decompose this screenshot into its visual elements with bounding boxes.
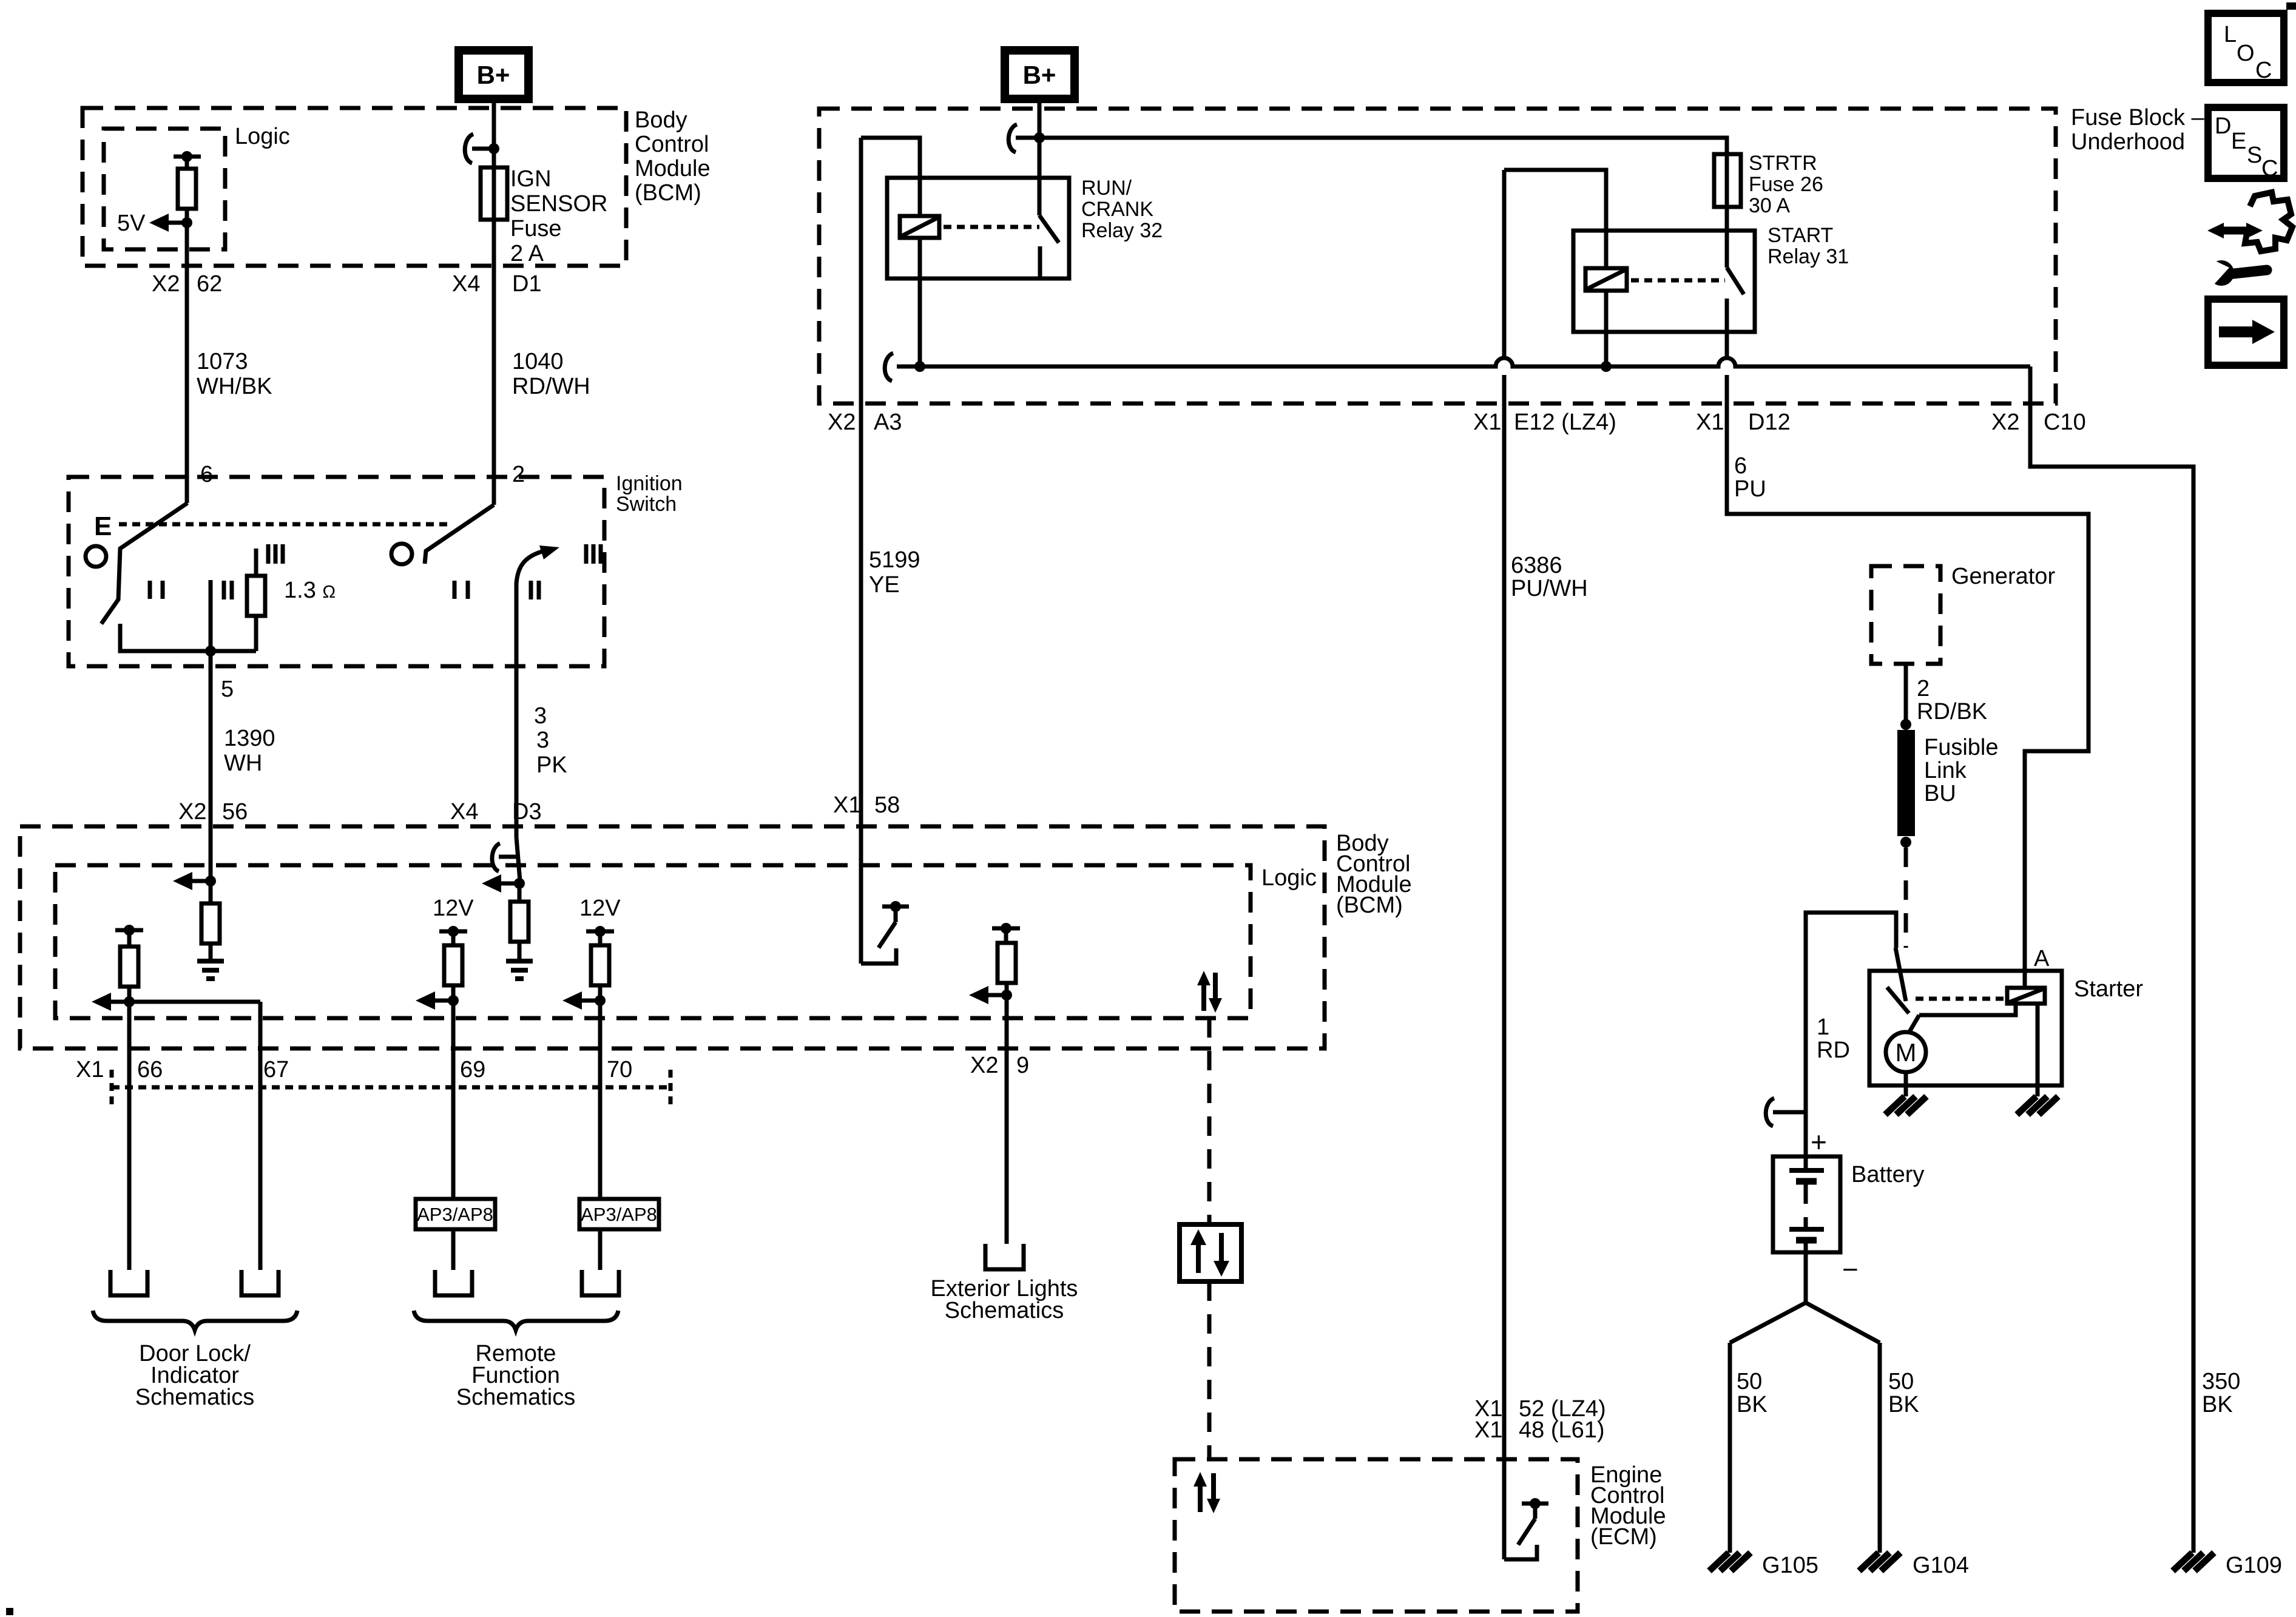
svg-text:X2: X2	[1991, 410, 2019, 435]
svg-text:BK: BK	[1888, 1392, 1919, 1417]
svg-text:PK: PK	[536, 752, 567, 778]
svg-text:E: E	[2231, 129, 2246, 154]
svg-text:Fuse: Fuse	[510, 216, 561, 241]
svg-text:Fusible: Fusible	[1924, 735, 1999, 760]
svg-text:56: 56	[222, 799, 248, 825]
svg-text:D12: D12	[1748, 410, 1791, 435]
svg-text:3: 3	[536, 727, 549, 753]
svg-text:5199: 5199	[869, 547, 920, 573]
svg-text:Body: Body	[635, 107, 687, 133]
svg-text:D3: D3	[512, 799, 542, 825]
svg-text:X2: X2	[152, 271, 180, 297]
svg-text:48 (L61): 48 (L61)	[1519, 1417, 1605, 1443]
svg-text:6: 6	[1734, 453, 1747, 479]
svg-text:BK: BK	[1737, 1392, 1768, 1417]
svg-text:Fuse 26: Fuse 26	[1749, 173, 1823, 196]
svg-text:BK: BK	[2202, 1392, 2233, 1417]
svg-text:X2: X2	[178, 799, 206, 825]
svg-text:RD: RD	[1817, 1038, 1850, 1063]
svg-text:L: L	[2224, 22, 2237, 47]
svg-text:66: 66	[137, 1057, 163, 1082]
svg-text:D: D	[2215, 113, 2231, 139]
svg-text:1073: 1073	[197, 349, 248, 374]
svg-text:AP3/AP8: AP3/AP8	[581, 1204, 657, 1225]
svg-text:(BCM): (BCM)	[635, 180, 701, 206]
svg-text:A: A	[2034, 946, 2050, 971]
svg-text:B+: B+	[1023, 61, 1056, 89]
svg-text:6: 6	[200, 462, 213, 487]
svg-text:X2: X2	[970, 1053, 998, 1078]
svg-text:C: C	[2255, 58, 2272, 83]
svg-text:S: S	[2247, 143, 2262, 168]
svg-text:STRTR: STRTR	[1749, 152, 1817, 175]
svg-text:Ignition: Ignition	[616, 472, 683, 495]
svg-text:58: 58	[874, 792, 900, 818]
svg-text:YE: YE	[869, 572, 900, 598]
svg-text:+: +	[1811, 1126, 1827, 1158]
svg-text:G104: G104	[1913, 1553, 1969, 1578]
svg-text:12V: 12V	[579, 896, 621, 921]
svg-text:69: 69	[460, 1057, 485, 1082]
svg-text:Fuse Block –: Fuse Block –	[2071, 105, 2205, 130]
svg-text:X1: X1	[1474, 1417, 1502, 1443]
svg-text:2: 2	[512, 462, 525, 487]
svg-text:Switch: Switch	[616, 493, 677, 516]
svg-text:Generator: Generator	[1951, 564, 2055, 589]
svg-text:X1: X1	[76, 1057, 104, 1082]
svg-text:2 A: 2 A	[510, 241, 544, 266]
svg-text:SENSOR: SENSOR	[510, 191, 607, 217]
svg-text:A3: A3	[874, 410, 902, 435]
svg-text:1040: 1040	[512, 349, 564, 374]
svg-text:9: 9	[1016, 1053, 1029, 1078]
svg-text:PU: PU	[1734, 476, 1766, 502]
svg-text:−: −	[1842, 1254, 1859, 1285]
svg-text:AP3/AP8: AP3/AP8	[417, 1204, 493, 1225]
svg-text:RUN/: RUN/	[1081, 177, 1132, 200]
svg-text:(ECM): (ECM)	[1590, 1524, 1657, 1550]
svg-text:D1: D1	[512, 271, 542, 297]
svg-text:Link: Link	[1924, 758, 1967, 783]
svg-text:G105: G105	[1762, 1553, 1818, 1578]
svg-text:50: 50	[1888, 1369, 1914, 1394]
svg-text:2: 2	[1917, 676, 1930, 701]
svg-text:1: 1	[1817, 1014, 1829, 1040]
svg-text:5: 5	[221, 677, 234, 702]
svg-text:RD/WH: RD/WH	[512, 374, 590, 399]
svg-text:Module: Module	[635, 156, 711, 181]
svg-text:Schematics: Schematics	[456, 1385, 575, 1410]
svg-text:CRANK: CRANK	[1081, 198, 1153, 221]
svg-text:E: E	[94, 511, 112, 541]
svg-text:Schematics: Schematics	[945, 1298, 1064, 1323]
svg-text:C10: C10	[2044, 410, 2086, 435]
svg-text:67: 67	[263, 1057, 289, 1082]
svg-text:Logic: Logic	[235, 124, 290, 149]
svg-text:Relay 32: Relay 32	[1081, 219, 1163, 242]
svg-text:X4: X4	[452, 271, 480, 297]
svg-text:X1: X1	[1473, 410, 1501, 435]
svg-text:Logic: Logic	[1261, 865, 1317, 891]
svg-text:350: 350	[2202, 1369, 2240, 1394]
svg-text:C: C	[2261, 156, 2278, 181]
svg-text:1390: 1390	[224, 726, 275, 751]
svg-text:Schematics: Schematics	[135, 1385, 254, 1410]
svg-text:30 A: 30 A	[1749, 194, 1790, 217]
svg-text:BU: BU	[1924, 781, 1956, 806]
svg-text:PU/WH: PU/WH	[1511, 576, 1588, 601]
svg-text:G109: G109	[2226, 1553, 2282, 1578]
svg-text:X4: X4	[450, 799, 478, 825]
svg-text:50: 50	[1737, 1369, 1762, 1394]
svg-text:B+: B+	[477, 61, 510, 89]
svg-text:5V: 5V	[117, 211, 146, 236]
svg-text:O: O	[2237, 41, 2255, 66]
svg-text:IGN: IGN	[510, 166, 552, 192]
svg-text:RD/BK: RD/BK	[1917, 699, 1987, 724]
svg-text:E12 (LZ4): E12 (LZ4)	[1514, 410, 1616, 435]
svg-text:3: 3	[534, 703, 547, 729]
svg-text:6386: 6386	[1511, 553, 1562, 578]
svg-text:WH: WH	[224, 751, 262, 776]
svg-text:WH/BK: WH/BK	[197, 374, 272, 399]
svg-text:X1: X1	[1696, 410, 1724, 435]
svg-text:X1: X1	[833, 792, 861, 818]
svg-text:START: START	[1768, 224, 1833, 247]
svg-text:M: M	[1896, 1038, 1917, 1067]
svg-text:Underhood: Underhood	[2071, 129, 2185, 155]
svg-text:Starter: Starter	[2074, 976, 2143, 1002]
svg-text:(BCM): (BCM)	[1336, 893, 1403, 918]
svg-text:70: 70	[607, 1057, 632, 1082]
svg-text:12V: 12V	[433, 896, 474, 921]
svg-text:62: 62	[197, 271, 222, 297]
svg-text:Control: Control	[635, 132, 709, 157]
svg-text:Battery: Battery	[1851, 1162, 1924, 1187]
svg-text:Relay 31: Relay 31	[1768, 245, 1849, 268]
svg-text:X2: X2	[828, 410, 856, 435]
